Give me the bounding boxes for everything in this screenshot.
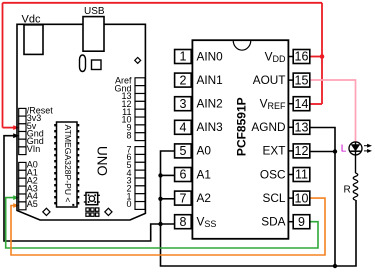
svg-text:VIn: VIn: [27, 144, 41, 154]
U1 pin 7 box: [175, 191, 192, 205]
U1 pin 9 box: [293, 215, 310, 229]
USB connector: [83, 17, 104, 52]
labels for power header /Reset..VIn: [27, 105, 54, 153]
wire red +5V net: right riser down to VREF branch: [321, 3, 323, 104]
mounting hole (diamond) top right of Arduino board: [135, 57, 141, 63]
arrowhead orange into Arduino A5 pin: [13, 203, 19, 208]
Vdc barrel jack connector: [24, 25, 43, 55]
svg-text:6: 6: [180, 168, 187, 182]
svg-text:OSC: OSC: [260, 167, 286, 181]
U1 pin 10 box: [293, 191, 310, 205]
svg-text:Vdc: Vdc: [22, 14, 41, 26]
wire black GND net: from Arduino Gnd pin left then down left edge then right along y=241: [4, 136, 175, 241]
U1 pin 1 box: [175, 50, 192, 64]
svg-text:11: 11: [295, 168, 308, 182]
svg-text:UNO: UNO: [95, 146, 110, 176]
junction GND at EXT/AGND tie: [333, 149, 337, 153]
svg-text:13: 13: [295, 121, 309, 135]
svg-text:SDA: SDA: [261, 215, 285, 229]
svg-text:AIN0: AIN0: [197, 49, 224, 63]
IC U1 PCF8591P body: [192, 40, 288, 239]
wire black GND net: stub to PCF pin 6 A1: [161, 174, 175, 176]
svg-text:ATMEGA328P-PU <: ATMEGA328P-PU <: [63, 125, 73, 203]
svg-text:USB: USB: [84, 6, 105, 17]
svg-text:AIN1: AIN1: [197, 73, 223, 87]
labels for digital header 7..0: [126, 144, 131, 209]
labels for analog header A0..A5: [27, 160, 38, 210]
U1 pin 2 box: [175, 73, 192, 87]
wire red +5V net: top rail: [3, 2, 323, 4]
svg-text:EXT: EXT: [263, 144, 286, 158]
IC U1 pin-1 notch: [233, 40, 251, 50]
svg-text:AOUT: AOUT: [253, 73, 286, 87]
wire black GND net: stub from PCF pin 12 EXT: [310, 151, 335, 153]
U1 pin 4 box: [175, 120, 192, 134]
labels for digital header Aref..8: [114, 76, 132, 141]
Arduino power header pins /Reset,3v3,5v,Gnd,Gnd,VIn: [19, 108, 26, 154]
wire red +5V net: branch to PCF8591P pin 14 VREF: [310, 103, 322, 105]
wire black GND net: address bus tying PCF pins 5-8 and down to bottom rail then right to LED branch: [161, 151, 357, 266]
small square component on Arduino board: [92, 60, 102, 70]
wire green SDA net: PCF pin 9 SDA to Arduino A4: [6, 198, 318, 248]
svg-text:SCL: SCL: [263, 191, 286, 205]
U1 pin 8 box: [175, 215, 192, 229]
capacitor (oval) on Arduino board: [80, 55, 86, 72]
resistor R (squiggle): [353, 173, 358, 200]
U1 pin 10 stub: [288, 197, 293, 199]
svg-text:AGND: AGND: [251, 120, 285, 134]
svg-text:AIN3: AIN3: [197, 120, 224, 134]
LED L symbol (circle, triangle, cathode bar): [349, 142, 362, 156]
Arduino UNO board outline: [17, 24, 145, 220]
arrowhead red into Arduino 5v pin: [13, 125, 19, 130]
svg-text:14: 14: [295, 97, 309, 111]
svg-text:12: 12: [295, 144, 309, 158]
wire red +5V net: stub into Arduino 5v pin: [3, 127, 17, 129]
U1 pin 16 stub: [288, 56, 293, 58]
LED emission arrows: [364, 145, 371, 153]
U1 pin 6 box: [175, 168, 192, 182]
U1 pin 15 stub: [288, 79, 293, 81]
svg-text:9: 9: [298, 215, 305, 229]
svg-text:8: 8: [180, 215, 187, 229]
IC U2 ATMEGA328P-PU (DIP-28 on Arduino board): [54, 122, 79, 207]
svg-text:1: 1: [180, 50, 187, 64]
junction GND bus at pin 6 row: [158, 173, 162, 177]
wire pink AOUT net: PCF pin 15 AOUT to LED anode: [310, 80, 356, 142]
junction red +5V net at VDD branch: [320, 54, 325, 59]
U1 pin 12 stub: [288, 150, 293, 152]
svg-text:R: R: [344, 184, 351, 195]
arrowhead green into Arduino A4 pin: [13, 195, 19, 200]
arrowhead black into Arduino Gnd pin: [13, 133, 19, 138]
svg-text:A0: A0: [197, 144, 212, 158]
mounting hole (diamond) bottom left of Arduino board: [43, 208, 50, 215]
svg-text:15: 15: [295, 73, 309, 87]
svg-text:2: 2: [180, 73, 187, 87]
svg-text:A2: A2: [197, 191, 211, 205]
U1 pin 16 box: [293, 50, 310, 64]
wire black GND net: stub to PCF pin 7 A2: [161, 198, 175, 200]
U1 pin 13 box: [293, 120, 310, 134]
svg-text:10: 10: [295, 191, 309, 205]
svg-text:AIN2: AIN2: [197, 97, 223, 111]
U1 pin 14 box: [293, 97, 310, 111]
U1 pin 11 stub: [288, 174, 293, 176]
ICSP header pads (3x2) on Arduino board: [86, 208, 99, 216]
wire black GND net: from PCF pin 13 AGND right then down: [310, 128, 335, 267]
wire orange SCL net: PCF pin 10 SCL to Arduino A5: [11, 198, 325, 255]
wire black: LED cathode down to resistor R: [355, 155, 357, 173]
U1 pin 3 box: [175, 97, 192, 111]
svg-text:5: 5: [180, 144, 187, 158]
junction GND bottom rail at LED branch: [333, 264, 337, 268]
U1 pin 14 stub: [288, 103, 293, 105]
U1 pin 13 stub: [288, 126, 293, 128]
svg-text:PCF8591P: PCF8591P: [235, 97, 249, 156]
svg-text:L: L: [341, 144, 347, 155]
U1 pin 9 stub: [288, 221, 293, 223]
Arduino analog header pins A0..A5: [19, 162, 26, 209]
wire red +5V net: branch to PCF8591P pin 16 VDD: [310, 56, 322, 58]
svg-text:0: 0: [126, 199, 131, 209]
svg-text:A5: A5: [27, 199, 38, 209]
U1 pin 11 box: [293, 168, 310, 182]
junction GND bus at pin 7 row: [158, 197, 162, 201]
svg-text:4: 4: [180, 121, 187, 135]
svg-text:8: 8: [126, 130, 131, 140]
Arduino digital header pins 7,6,5,4,3,2,1,0: [135, 147, 145, 210]
junction GND bus at pin 8 row: [158, 222, 162, 226]
mounting hole (diamond) bottom middle of Arduino board: [105, 208, 112, 215]
svg-text:A1: A1: [197, 167, 211, 181]
Arduino digital header pins Aref,Gnd,13,12,11,10,9,8: [135, 78, 145, 141]
svg-text:16: 16: [295, 50, 309, 64]
wire red +5V net: left riser from Arduino 5v pin up to top rail: [2, 3, 4, 128]
svg-text:3: 3: [180, 97, 187, 111]
svg-text:7: 7: [180, 191, 187, 205]
U1 pin 5 box: [175, 144, 192, 158]
U1 pin 15 box: [293, 73, 310, 87]
reset button S1 on Arduino board: [84, 193, 100, 205]
U1 pin 12 box: [293, 144, 310, 158]
